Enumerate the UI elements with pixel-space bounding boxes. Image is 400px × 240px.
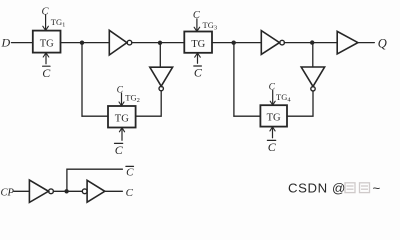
inverter G4 (down-pointing) triangle (301, 67, 324, 86)
svg-text:TG4: TG4 (276, 92, 291, 104)
wire TG3 to inverter G3 (212, 42, 261, 44)
node C-bar control stem into TG3 bottom (197, 53, 199, 63)
svg-text:CP: CP (1, 188, 15, 199)
node C control stem into TG1 top (45, 15, 47, 30)
inverter G2 bubble (159, 86, 163, 90)
svg-text:TG2: TG2 (125, 92, 140, 104)
node C-bar label below TG1 (43, 65, 50, 67)
wire feedback row to TG4 input (234, 115, 261, 117)
svg-text:C: C (117, 85, 124, 95)
svg-text:C: C (193, 10, 201, 21)
wire node C2 down to feedback row (233, 43, 235, 117)
svg-text:TG: TG (191, 39, 205, 50)
node C-bar control stem into TG1 bottom (45, 53, 47, 64)
node C control stem into TG4 top (272, 90, 274, 105)
wire G3 to buffer G5 (284, 42, 337, 44)
svg-text:C: C (268, 140, 277, 154)
inverter G3 triangle (261, 31, 279, 55)
wire node Cbar up and right to label (67, 169, 123, 191)
wire node B down to inverter G2 (159, 43, 161, 67)
node C-bar control stem into TG2 bottom (121, 128, 123, 141)
inverter G6 bubble (49, 189, 54, 194)
wire buffer to Q (358, 42, 374, 44)
inverter G4 bubble (311, 87, 315, 91)
svg-text:TG: TG (267, 112, 281, 123)
wire G2 output to TG2 (136, 91, 162, 116)
inverter G1 bubble (127, 40, 132, 45)
node B junction (158, 41, 162, 45)
svg-text:TG3: TG3 (203, 20, 218, 32)
wire node A down to feedback row (81, 43, 83, 117)
inverter G3 bubble (280, 40, 285, 45)
svg-text:CSDN @: CSDN @ (288, 181, 346, 196)
wire G1 to TG3 (132, 42, 185, 44)
wire D to TG1 (12, 42, 33, 44)
svg-text:C: C (41, 6, 49, 17)
node C-bar label below TG4 (267, 139, 275, 141)
svg-text:C: C (42, 66, 51, 80)
transmission gate TG3 (184, 32, 212, 53)
wire node E down to inverter G4 (312, 43, 314, 67)
node Cbar junction (64, 189, 68, 193)
node C-bar label below TG2 (115, 142, 123, 144)
node E junction (310, 40, 314, 44)
svg-text:D: D (1, 36, 11, 50)
inverter G2 (down-pointing) triangle (150, 67, 173, 86)
node C2 junction (232, 41, 236, 45)
watermark CSDN (288, 181, 381, 196)
svg-text:C: C (126, 167, 134, 179)
wire G4 output to TG4 (287, 91, 313, 116)
svg-text:C: C (194, 65, 203, 79)
svg-text:TG: TG (115, 113, 129, 124)
transmission gate TG2 (108, 106, 136, 128)
svg-text:C: C (126, 187, 134, 199)
svg-text:C: C (269, 83, 276, 93)
inverter G7 triangle (87, 180, 105, 202)
svg-text:TG1: TG1 (51, 17, 66, 29)
node C-bar label below TG3 (194, 65, 202, 67)
node C control stem into TG2 top (121, 93, 123, 106)
node A junction (80, 41, 84, 45)
svg-text:C: C (115, 143, 124, 157)
buffer G5 triangle (337, 31, 358, 54)
svg-text:~: ~ (373, 181, 381, 196)
wire TG1 to inverter G1 (61, 42, 110, 44)
wire feedback row to TG2 input (82, 115, 108, 117)
node C control stem into TG3 top (196, 19, 198, 32)
net C-bar label (126, 165, 134, 167)
wire CP to inverter G6 (14, 190, 30, 192)
inverter G6 triangle (29, 180, 48, 202)
node C-bar control stem into TG4 bottom (272, 127, 274, 138)
svg-text:Q: Q (378, 36, 387, 50)
op-amp/inverter G1 triangle (109, 30, 127, 55)
inverter G7 input bubble (82, 189, 87, 194)
wire G7 to C label (105, 190, 123, 192)
svg-text:TG: TG (40, 39, 54, 50)
transmission gate TG4 (260, 105, 287, 126)
wire G6 to G7 (53, 190, 82, 192)
transmission gate TG1 (33, 31, 61, 53)
